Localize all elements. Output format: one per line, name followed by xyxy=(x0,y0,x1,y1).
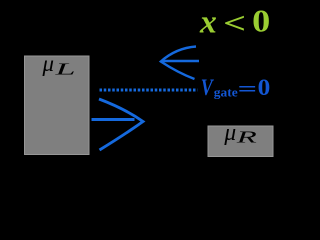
label x &lt; 0 xyxy=(199,3,270,41)
svg-text:μ: μ xyxy=(223,119,236,146)
svg-text:0: 0 xyxy=(252,3,270,39)
label V_gate = 0 xyxy=(201,75,271,100)
left-pointing arrow: curved head xyxy=(161,47,196,80)
dotted gate line xyxy=(100,89,198,92)
svg-text:L: L xyxy=(54,60,75,79)
label mu_R xyxy=(223,119,256,146)
svg-text:gate: gate xyxy=(214,85,238,100)
left lead rectangle (mu_L) xyxy=(25,56,90,155)
label mu_L xyxy=(42,51,76,78)
svg-text:μ: μ xyxy=(42,51,54,76)
svg-text:x: x xyxy=(199,5,217,41)
right-pointing arrow: curved head xyxy=(99,99,143,150)
svg-text:0: 0 xyxy=(258,75,271,100)
left-pointing arrow: shaft xyxy=(163,60,200,62)
right lead rectangle (mu_R) xyxy=(208,126,273,157)
svg-text:R: R xyxy=(236,128,257,147)
right-pointing arrow: shaft xyxy=(92,118,135,121)
svg-text:<: < xyxy=(223,7,246,40)
svg-text:V: V xyxy=(201,75,214,100)
svg-text:=: = xyxy=(238,77,257,101)
